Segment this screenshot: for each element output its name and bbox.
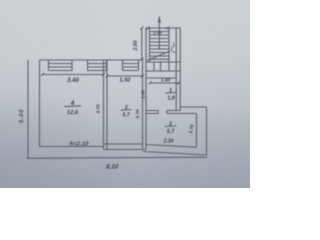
stair block top wall <box>146 27 181 29</box>
room 4 left wall <box>39 60 41 147</box>
svg-text:2.00: 2.00 <box>133 40 139 51</box>
svg-text:1.60: 1.60 <box>161 77 171 83</box>
room 2 inner bottom wall (sloped) <box>146 145 197 148</box>
stair flight start dot <box>158 47 160 49</box>
dimension line 2.00 (stairs left) <box>141 28 143 59</box>
room 4 fraction bar <box>65 105 82 108</box>
room 1 bottom wall (door gap) <box>146 110 181 112</box>
main bottom wall outer line <box>104 149 147 151</box>
stair bottom line <box>146 61 181 63</box>
window W3 (room 3 top wall) <box>123 60 139 71</box>
svg-text:9,10: 9,10 <box>105 164 119 171</box>
main bottom wall inner line <box>40 144 143 147</box>
dimension ticks <box>41 27 181 85</box>
svg-text:3.40: 3.40 <box>67 78 79 84</box>
svg-text:5,7: 5,7 <box>167 129 175 135</box>
stair cut diagonal <box>147 51 170 61</box>
paper background <box>0 0 250 188</box>
dimension line 1,92 (room 3 top) <box>107 75 143 77</box>
svg-text:1,92: 1,92 <box>120 77 132 83</box>
stair inner right wall <box>168 28 170 71</box>
main top wall <box>40 59 143 61</box>
svg-text:1.60: 1.60 <box>140 90 145 99</box>
dimension line 3.40 (room 4 top) <box>43 74 104 76</box>
room 2 inner top wall (door gap) <box>146 113 197 115</box>
svg-text:3.70: 3.70 <box>96 104 102 114</box>
room 3 fraction bar <box>121 109 132 112</box>
dimension line 5.00 (left) <box>27 60 29 158</box>
dimension line 1.60 (room 1 top) <box>150 82 179 84</box>
svg-text:5,7: 5,7 <box>122 113 130 119</box>
building right wall at stair (double) <box>176 28 180 111</box>
stair arrowhead (up) <box>158 16 162 23</box>
dimension line 9.10 (bottom) <box>27 157 208 158</box>
room 2 fraction bar <box>165 125 177 128</box>
svg-text:h=2.10: h=2.10 <box>69 142 89 148</box>
window W2 (room 4 top wall right) <box>88 60 107 71</box>
window W1 (room 4 top wall left) <box>49 60 73 71</box>
svg-text:3.70: 3.70 <box>135 109 141 119</box>
svg-text:12,6: 12,6 <box>67 110 79 116</box>
stair up-arrow <box>158 17 160 48</box>
svg-text:1,8: 1,8 <box>167 96 174 102</box>
svg-text:2.30: 2.30 <box>162 139 173 145</box>
wall between room 4 and room 3 <box>104 60 108 150</box>
room 2 outer bottom wall <box>143 152 207 156</box>
stair left inner wall <box>149 28 151 62</box>
room 2 inner right wall <box>196 114 198 148</box>
stair flight squiggle <box>171 43 175 53</box>
door jambs room1/room2 <box>158 111 167 114</box>
room 2 outer right wall <box>206 107 208 155</box>
svg-text:1.00: 1.00 <box>153 30 162 35</box>
room 2 outer top wall <box>181 106 207 108</box>
svg-text:5.00: 5.00 <box>19 109 25 123</box>
room 1 top wall <box>146 77 177 79</box>
landing door jambs <box>154 62 161 71</box>
room 1 fraction bar <box>165 92 176 95</box>
wall right of room 3 (rooms 1/2 side) <box>143 28 147 150</box>
stair landing wall <box>146 70 181 72</box>
stair treads <box>150 32 170 60</box>
